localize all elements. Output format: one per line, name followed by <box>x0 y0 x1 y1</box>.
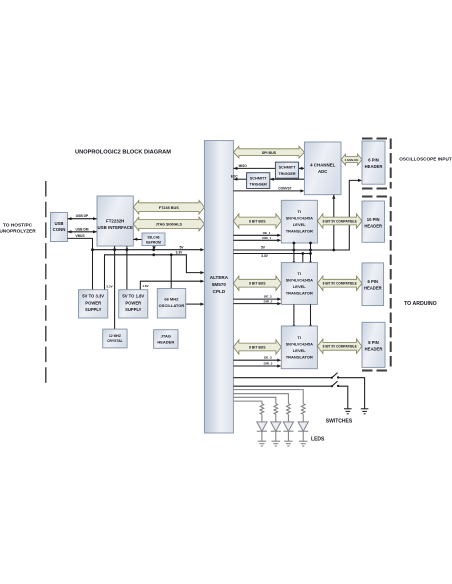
ground for D1 <box>258 441 266 446</box>
ground for SW2 <box>344 409 352 414</box>
wire MISO <box>233 164 304 170</box>
wire VBUS <box>68 234 93 290</box>
ground for D4 <box>299 441 307 446</box>
svg-text:8 BIT BUS: 8 BIT BUS <box>249 282 266 286</box>
svg-text:SWITCHES: SWITCHES <box>326 419 353 425</box>
connector J5 6 pin header <box>362 263 384 306</box>
svg-text:CPLD: CPLD <box>213 289 226 294</box>
svg-text:93LC46: 93LC46 <box>147 235 159 239</box>
svg-text:12 MHZ: 12 MHZ <box>109 334 121 338</box>
resistor R3 <box>287 404 291 415</box>
dashed bracket oscilloscope inputs <box>362 139 391 189</box>
switch SW1 <box>331 373 340 379</box>
svg-text:DIR_1: DIR_1 <box>262 236 271 240</box>
svg-text:CONVST: CONVST <box>278 186 291 190</box>
wire 5V rail left <box>91 246 204 252</box>
svg-text:USB DP: USB DP <box>76 214 89 218</box>
svg-text:TI: TI <box>298 209 302 214</box>
svg-text:DIR_2: DIR_2 <box>264 299 273 303</box>
svg-text:HEADER: HEADER <box>157 340 174 345</box>
wire FT2232H 5V feed to 1.8V supply <box>126 246 128 290</box>
svg-text:8 BIT BUS: 8 BIT BUS <box>249 346 266 350</box>
svg-text:USB: USB <box>54 221 63 226</box>
svg-text:TI: TI <box>298 335 302 340</box>
wire FT2232H to EEPROM <box>133 238 142 241</box>
svg-text:SPI BUS: SPI BUS <box>262 151 277 155</box>
svg-text:HEADER: HEADER <box>365 164 383 169</box>
svg-text:5V TO 1.8V: 5V TO 1.8V <box>122 294 144 299</box>
svg-text:TRANSLATOR: TRANSLATOR <box>286 355 313 360</box>
resistor R1 <box>260 404 264 415</box>
wire switch line 1 <box>233 378 364 409</box>
memory U2 93LC46 EEPROM <box>142 233 165 246</box>
svg-text:5V TO 3.3V: 5V TO 3.3V <box>82 294 104 299</box>
level translator U8 <box>281 263 317 305</box>
svg-text:CRYSTAL: CRYSTAL <box>107 339 123 343</box>
svg-text:SN74LVC4245A: SN74LVC4245A <box>286 216 314 220</box>
svg-text:OSCILLATOR: OSCILLATOR <box>159 303 185 308</box>
bus arrow 8 BIT BUS 1 <box>233 214 281 228</box>
svg-text:OE_2: OE_2 <box>264 295 272 299</box>
svg-text:HEADER: HEADER <box>364 223 382 228</box>
svg-text:OSCILLOSCOPE INPUTS: OSCILLOSCOPE INPUTS <box>399 156 452 161</box>
switch SW2 <box>331 381 340 387</box>
svg-text:POWER: POWER <box>85 300 101 305</box>
wire 5V right rail to 6 pin header <box>233 179 362 252</box>
svg-text:3.3V: 3.3V <box>176 251 184 255</box>
svg-text:JTAG SIGNALS: JTAG SIGNALS <box>156 223 183 227</box>
wire OE_1 <box>233 231 281 237</box>
crystal X1 12 MHZ <box>103 329 127 348</box>
ground for SW1 <box>361 409 369 414</box>
resistor R2 <box>274 404 278 415</box>
left dashed boundary <box>45 181 47 387</box>
svg-text:EOC: EOC <box>231 175 239 179</box>
svg-text:8 BIT 5V COMPATIBLE: 8 BIT 5V COMPATIBLE <box>323 219 357 223</box>
wire 3.3V to oscillator <box>170 255 172 289</box>
svg-text:HEADER: HEADER <box>364 285 382 290</box>
bus arrow 8 BIT BUS 3 <box>233 340 281 354</box>
LED D3 <box>283 414 293 441</box>
svg-text:LEVEL: LEVEL <box>293 348 306 353</box>
schmitt trigger U4 <box>275 162 298 178</box>
USB connector J1 <box>51 213 68 242</box>
connector J3 6 pin header <box>362 141 385 184</box>
bus arrow JTAG SIGNALS <box>133 217 204 231</box>
svg-text:4 CHANNEL: 4 CHANNEL <box>310 163 335 168</box>
wire LED feed 4 <box>233 390 303 404</box>
svg-text:8 BIT 5V COMPATIBLE: 8 BIT 5V COMPATIBLE <box>323 282 357 286</box>
svg-text:6 PIN: 6 PIN <box>368 279 378 284</box>
wire oscillator to CPLD <box>186 303 205 306</box>
oscillator X2 66 MHZ <box>157 289 185 319</box>
svg-text:8 PIN: 8 PIN <box>368 340 378 345</box>
level translator U7 <box>281 200 317 243</box>
wire 3.3V rail left <box>105 251 205 290</box>
svg-text:3.3V: 3.3V <box>261 254 269 258</box>
svg-text:TRANSLATOR: TRANSLATOR <box>286 229 313 234</box>
svg-text:LEVEL: LEVEL <box>293 284 306 289</box>
wire DIR_2 <box>233 299 281 305</box>
svg-text:TRIGGER: TRIGGER <box>278 172 296 176</box>
power supply PS1 5V TO 3.3V <box>79 290 108 318</box>
wire CONVST <box>233 186 304 192</box>
svg-text:SUPPLY: SUPPLY <box>125 307 142 312</box>
wire EOC <box>231 175 305 181</box>
svg-text:TRANSLATOR: TRANSLATOR <box>286 291 313 296</box>
svg-text:FT2232H: FT2232H <box>106 219 124 224</box>
svg-text:SN74LVC4245A: SN74LVC4245A <box>286 279 314 283</box>
svg-text:USB DM: USB DM <box>75 227 88 231</box>
svg-text:TRIGGER: TRIGGER <box>250 183 268 187</box>
dashed bracket to arduino <box>362 197 391 371</box>
svg-text:TI: TI <box>298 271 302 276</box>
bus arrow 8 BIT 5V COMPATIBLE 3 <box>317 339 362 353</box>
wire EEPROM to 5V rail <box>152 246 155 250</box>
svg-text:MISO: MISO <box>239 164 248 168</box>
wire DIR_3 <box>233 362 281 368</box>
bus arrow FT245 BUS <box>133 200 204 214</box>
wire translator1 to translator2 left <box>293 242 296 264</box>
wire FT2232H to 12MHZ crystal <box>114 246 116 329</box>
bus arrow 4 ANALOG <box>341 154 362 165</box>
svg-text:66 MHZ: 66 MHZ <box>164 297 179 302</box>
ground for D2 <box>272 441 280 446</box>
svg-text:JTAG: JTAG <box>161 333 171 338</box>
svg-text:SUPPLY: SUPPLY <box>85 307 102 312</box>
svg-text:1.8V: 1.8V <box>142 284 148 288</box>
wire 3.3V stub to translator2 <box>302 254 304 263</box>
wire translator1 to translator2 right <box>309 242 312 264</box>
connector J2 JTAG header <box>154 330 178 349</box>
svg-text:TO HOST/PC: TO HOST/PC <box>3 222 33 228</box>
connector J6 8 pin header <box>362 322 385 367</box>
wire OE_3 <box>233 356 281 362</box>
svg-text:UNOPROLOGIC2 BLOCK DIAGRAM: UNOPROLOGIC2 BLOCK DIAGRAM <box>75 150 171 156</box>
svg-text:OE_1: OE_1 <box>263 231 271 235</box>
svg-text:FT245 BUS: FT245 BUS <box>159 206 180 210</box>
resistor R4 <box>301 404 305 415</box>
svg-text:DIR_3: DIR_3 <box>264 362 273 366</box>
wire switch line 2 <box>233 386 347 409</box>
svg-text:LEVEL: LEVEL <box>293 222 306 227</box>
wire USB DP <box>68 214 98 220</box>
wire 1.8V to CPLD <box>140 280 204 290</box>
wire translator2 to translator3 left <box>293 304 296 327</box>
svg-text:ADC: ADC <box>318 169 328 174</box>
schmitt trigger U5 <box>247 173 270 189</box>
svg-text:USB INTERFACE: USB INTERFACE <box>98 225 133 230</box>
wire LED feed 1 <box>233 401 262 404</box>
svg-text:VBUS: VBUS <box>75 234 85 238</box>
svg-text:UNOPROLYZER: UNOPROLYZER <box>0 229 36 235</box>
wire LED feed 3 <box>233 394 288 404</box>
wire ADC supply branch <box>332 195 335 250</box>
svg-text:4 ANALOG: 4 ANALOG <box>345 158 359 162</box>
bus arrow 8 BIT BUS 2 <box>233 276 281 290</box>
svg-text:SCHMITT: SCHMITT <box>279 166 297 170</box>
svg-text:SN74LVC4245A: SN74LVC4245A <box>286 342 314 346</box>
svg-text:LEDS: LEDS <box>311 436 325 442</box>
svg-text:POWER: POWER <box>125 300 141 305</box>
svg-text:10 PIN: 10 PIN <box>367 217 380 222</box>
svg-text:ALTERA: ALTERA <box>210 275 229 280</box>
bus arrow 8 BIT 5V COMPATIBLE 2 <box>317 276 362 290</box>
svg-text:8 BIT BUS: 8 BIT BUS <box>249 220 266 224</box>
svg-text:OE_3: OE_3 <box>264 356 272 360</box>
ADC U6 4 channel <box>304 142 341 195</box>
level translator U9 <box>281 326 317 369</box>
wire DIR_1 <box>233 236 281 242</box>
bus arrow SPI BUS <box>233 146 304 158</box>
LED D2 <box>271 414 281 441</box>
ground for D3 <box>284 441 292 446</box>
svg-text:8 BIT 5V COMPATIBLE: 8 BIT 5V COMPATIBLE <box>323 345 357 349</box>
LED D4 <box>298 414 308 441</box>
wire LED feed 2 <box>233 397 275 403</box>
wire 3.3V right rail <box>233 252 312 258</box>
IC U1 FT2232H USB interface <box>97 196 133 246</box>
svg-text:6 PIN: 6 PIN <box>368 157 378 162</box>
svg-text:3.3V: 3.3V <box>106 284 112 288</box>
LED D1 <box>257 414 267 441</box>
IC U3 ALTERA 5M570 CPLD <box>204 141 233 433</box>
wire OE_2 <box>233 295 281 301</box>
svg-text:EEPROM: EEPROM <box>146 240 161 244</box>
connector J4 10 pin header <box>362 201 385 242</box>
wire USB DM <box>68 227 98 233</box>
svg-text:HEADER: HEADER <box>365 346 383 351</box>
svg-text:TO ARDUINO: TO ARDUINO <box>404 301 437 307</box>
svg-text:5M570: 5M570 <box>212 282 226 287</box>
bus arrow 8 BIT 5V COMPATIBLE 1 <box>317 214 362 228</box>
wire translator2 to translator3 right <box>309 304 312 327</box>
power supply PS2 5V TO 1.8V <box>119 290 148 318</box>
svg-text:CONN: CONN <box>53 227 66 232</box>
svg-text:SCHMITT: SCHMITT <box>250 176 268 180</box>
